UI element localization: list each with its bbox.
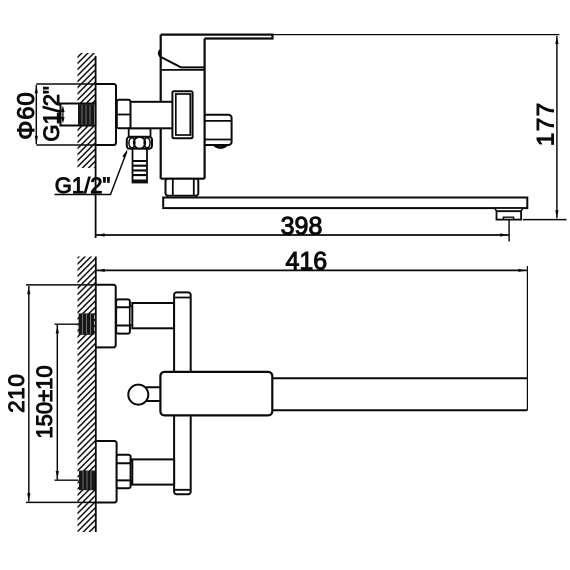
210 dimension line <box>28 286 30 501</box>
svg-text:150±10: 150±10 <box>32 365 57 438</box>
210 extension lines <box>26 285 96 503</box>
150+-10 dimension line <box>56 325 58 479</box>
svg-text:416: 416 <box>285 247 327 275</box>
wall hatching (plan) <box>78 257 96 533</box>
wall face line <box>95 56 97 238</box>
150+-10 extension lines <box>55 324 79 480</box>
lower pipe <box>132 459 174 484</box>
spout (side) <box>163 198 527 209</box>
svg-text:G1/2": G1/2" <box>55 173 111 198</box>
cartridge cover plate (double rect) <box>172 91 192 138</box>
svg-text:G1/2": G1/2" <box>39 86 64 142</box>
nozzle collar <box>495 208 523 211</box>
wall hatching (top view) <box>78 53 96 168</box>
upper washer <box>130 307 132 326</box>
150+-10 arrowheads <box>56 324 59 480</box>
faucet body (side) <box>182 66 205 68</box>
lever handle <box>161 35 273 39</box>
shower hex nut <box>127 137 152 149</box>
pipe from nut to body <box>131 102 173 129</box>
upper nut <box>116 299 130 333</box>
398 arrowheads <box>96 233 510 236</box>
lower nut <box>117 455 131 489</box>
svg-text:Φ60: Φ60 <box>13 91 40 139</box>
upper pipe <box>132 303 174 328</box>
G1/2 leader label <box>55 152 127 195</box>
398 dimension line <box>96 234 508 236</box>
escutcheon (top view) <box>96 84 116 145</box>
416 dimension line <box>97 269 527 271</box>
thread (dark) in wall <box>78 105 94 125</box>
phi60 extension lines <box>36 84 95 145</box>
hex nut below body <box>166 179 199 196</box>
inlet pipe through wall G1/2 <box>61 104 96 126</box>
lower washer <box>131 461 133 480</box>
svg-text:177: 177 <box>533 101 560 146</box>
phi60 dimension line <box>35 85 37 144</box>
shower elbow collar <box>129 128 151 137</box>
diverter stem + knob circle (plan) <box>145 387 160 401</box>
398 right extension line <box>508 220 510 242</box>
svg-text:210: 210 <box>4 374 29 413</box>
177 arrowheads <box>555 35 558 219</box>
210 arrowheads <box>27 285 30 502</box>
svg-text:398: 398 <box>281 212 323 240</box>
aerator <box>497 211 522 219</box>
416 right extension line (to plan spout end) <box>526 266 528 410</box>
upper escutcheon <box>96 285 116 348</box>
spout (plan) <box>272 378 527 410</box>
phi60 arrowheads <box>35 84 38 144</box>
vertical bar (body, plan) <box>174 292 191 494</box>
cartridge body (plan) <box>160 372 272 416</box>
177 dimension line <box>556 36 558 218</box>
nut behind body (top view) <box>117 100 131 129</box>
shower nipple with threads <box>133 149 148 183</box>
wall face line (plan) <box>95 257 97 533</box>
lower escutcheon <box>96 441 117 503</box>
416 arrowheads <box>96 269 528 272</box>
G1/2 pipe diameter arrows <box>62 108 64 121</box>
diverter knob (right side) <box>205 115 232 145</box>
lower wall thread (dark) <box>79 471 95 491</box>
upper wall thread (dark) <box>79 313 95 334</box>
177 lower extension line <box>523 219 567 221</box>
